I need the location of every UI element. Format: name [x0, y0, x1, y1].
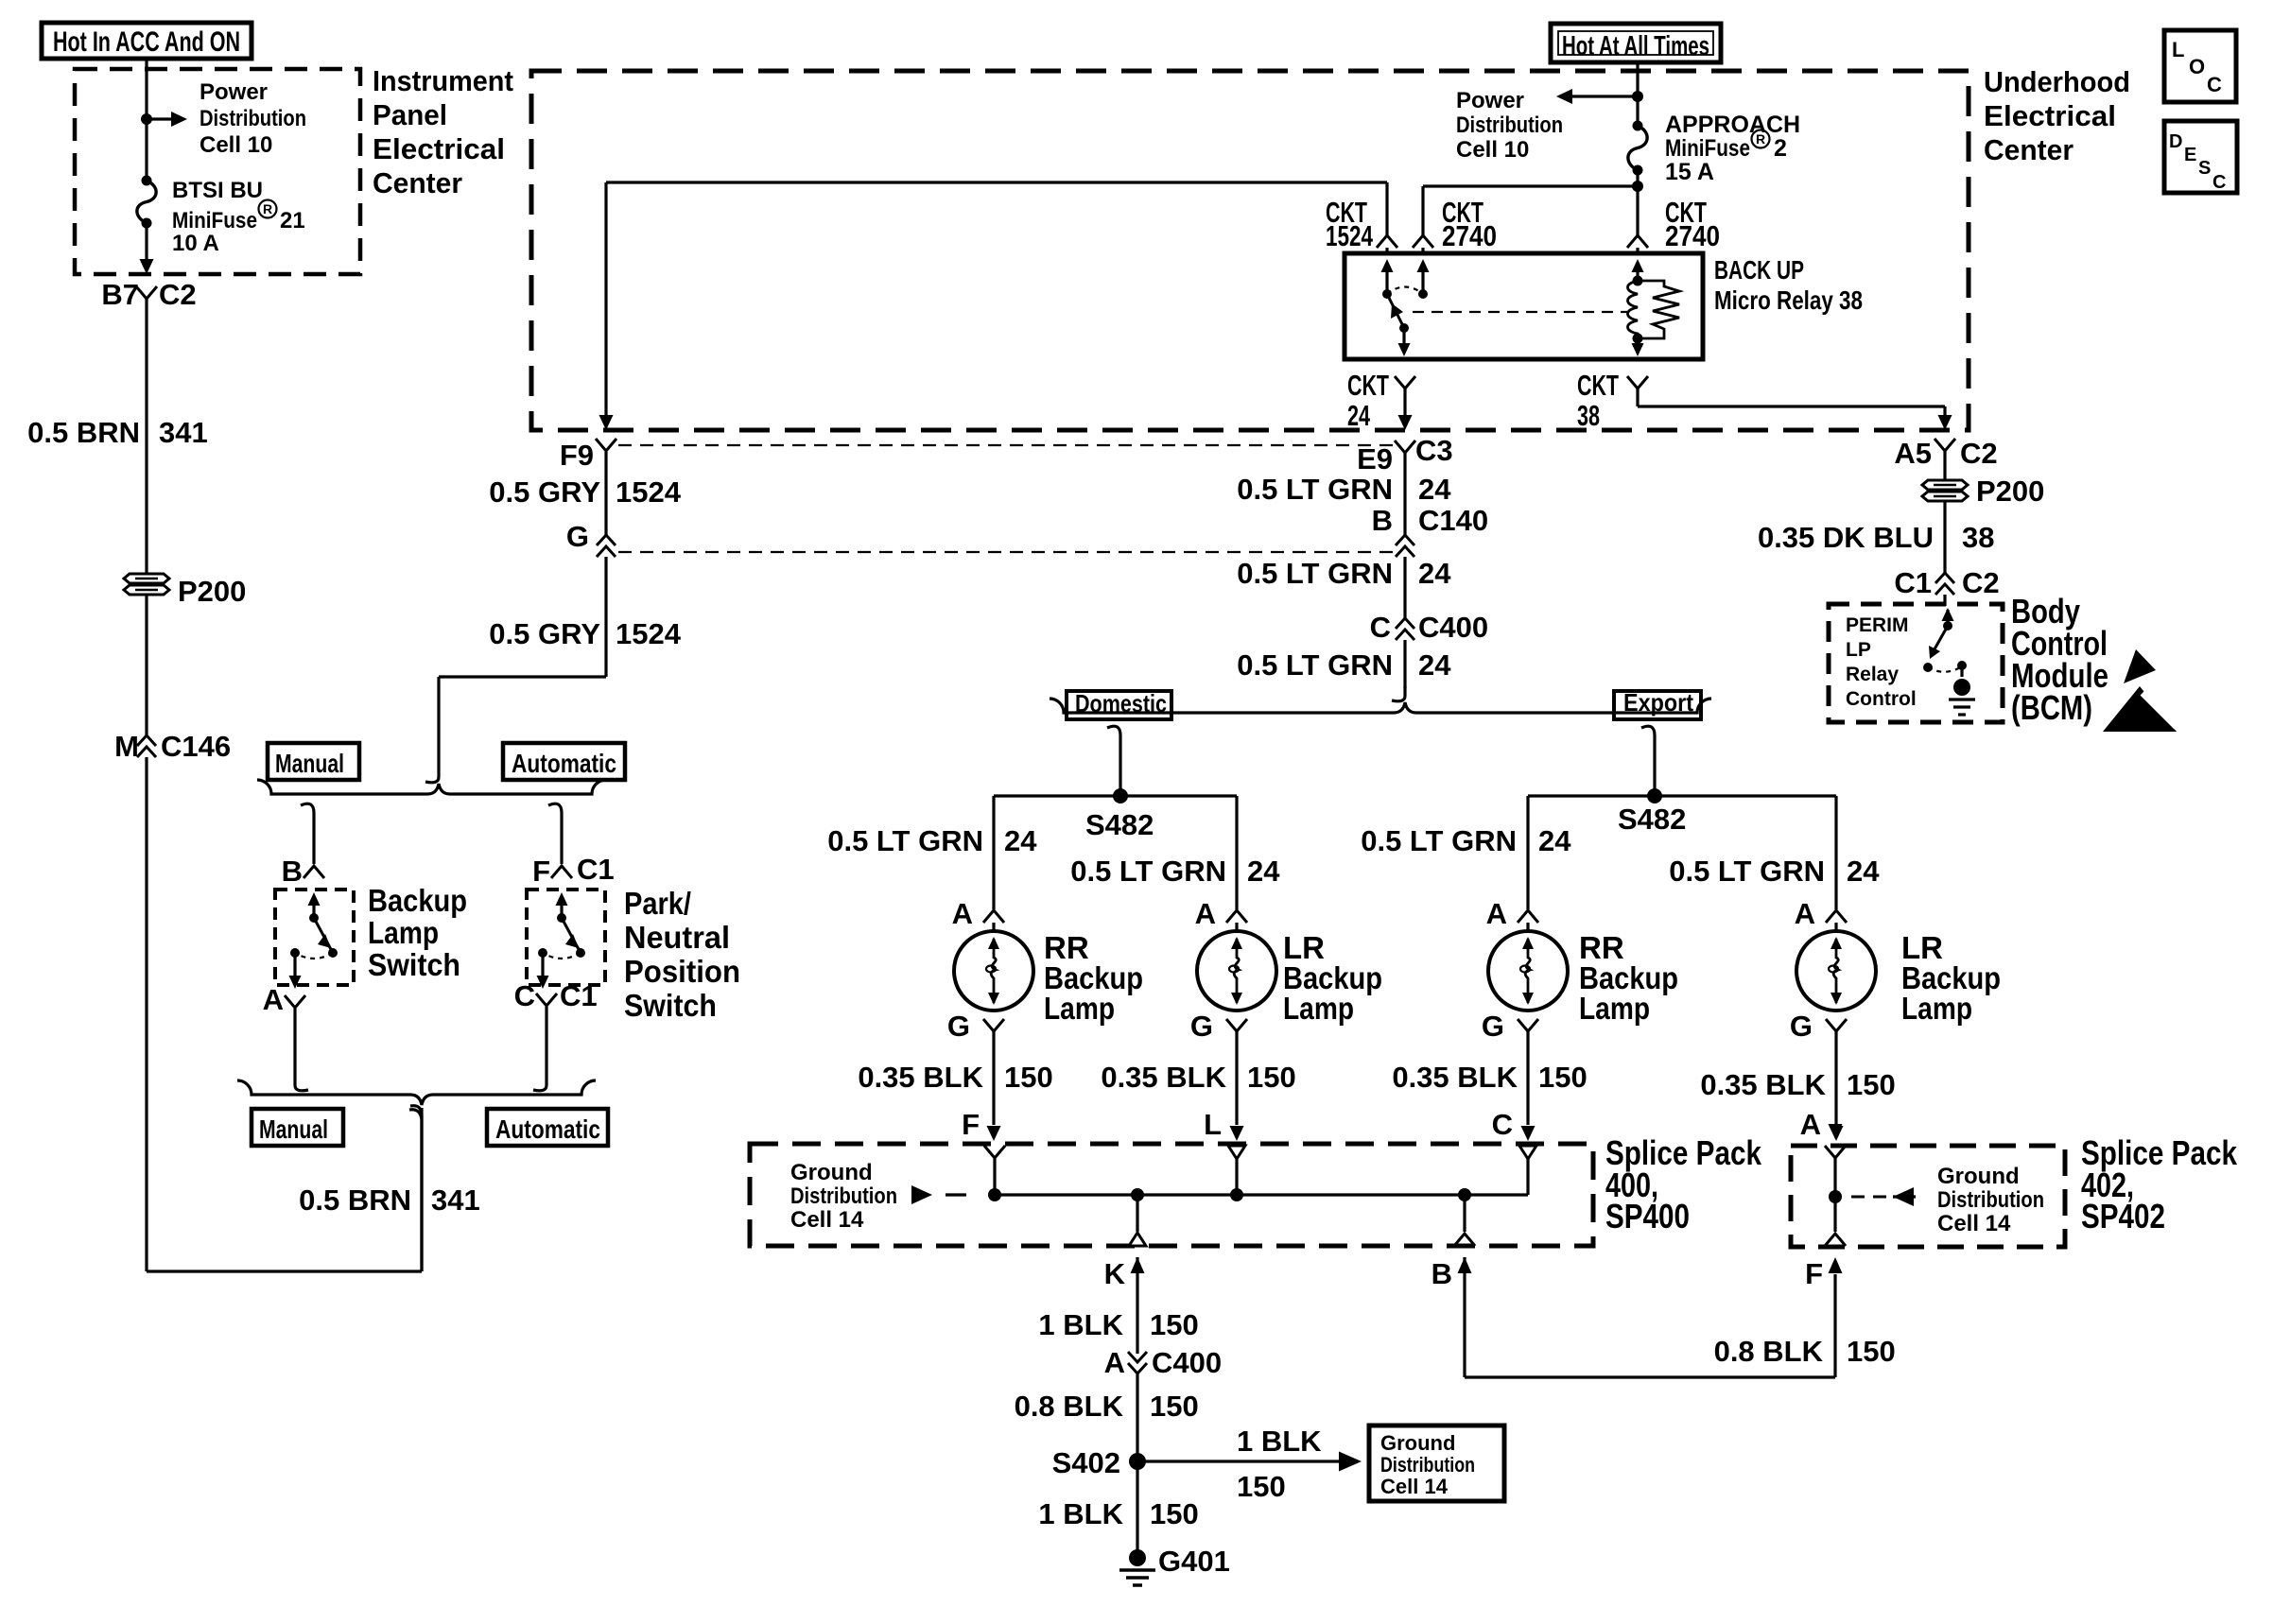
wire 0.5 BRN 341 (upper): [145, 299, 147, 574]
svg-text:0.5 GRY: 0.5 GRY: [489, 475, 600, 509]
wire: Export branch down: [1641, 726, 1655, 796]
svg-text:L: L: [2172, 38, 2184, 61]
power feed label box: Hot In ACC And ON: [42, 23, 252, 59]
svg-text:15 A: 15 A: [1665, 159, 1714, 185]
relay K1 box: BACK UP Micro Relay 38: [1345, 253, 1703, 359]
svg-text:0.5 LT GRN: 0.5 LT GRN: [827, 824, 983, 857]
svg-text:Cell 10: Cell 10: [200, 132, 272, 158]
svg-text:341: 341: [159, 416, 208, 449]
wire label 0.5 LT GRN 24 (LR dom): [1070, 855, 1280, 888]
thin dashed inline-connector line (C3 level): [618, 444, 1394, 446]
pin A LR backup lamp 2: [1195, 897, 1247, 930]
svg-text:0.35 DK BLU: 0.35 DK BLU: [1758, 521, 1934, 554]
svg-text:CKT: CKT: [1347, 369, 1389, 402]
svg-text:Cell 14: Cell 14: [1937, 1211, 2011, 1236]
svg-text:Center: Center: [373, 166, 462, 199]
wire 0.5 LT GRN 24 (C400 to split): [1392, 640, 1405, 701]
svg-text:E9: E9: [1357, 442, 1393, 475]
SP400 ground bus: [988, 1188, 1528, 1201]
svg-text:24: 24: [1538, 824, 1571, 857]
svg-text:C400: C400: [1152, 1346, 1222, 1379]
fuse F2 label: [1665, 112, 1800, 185]
svg-text:B7: B7: [101, 278, 139, 311]
connector pin B7 of C2: [101, 278, 196, 311]
wire label 0.5 LT GRN 24 (RR exp): [1361, 824, 1571, 857]
svg-text:P200: P200: [1976, 475, 2044, 508]
wire to RR lamp A (Domestic): [992, 796, 995, 909]
DESC reference box: [2164, 121, 2237, 193]
svg-text:2: 2: [1774, 135, 1787, 162]
arrow to Power Distribution Cell 10: [147, 112, 187, 127]
svg-text:150: 150: [1847, 1335, 1896, 1368]
svg-text:Electrical: Electrical: [1984, 99, 2116, 132]
wire: UHEC CKT1524 exit to F9: [599, 182, 614, 430]
svg-text:R: R: [263, 201, 272, 216]
pin L splice pack (lamp 2): [1204, 1108, 1222, 1141]
svg-text:0.5 LT GRN: 0.5 LT GRN: [1237, 473, 1393, 506]
svg-text:R: R: [1756, 131, 1765, 147]
relay K1 switch blade: [1387, 294, 1409, 333]
svg-text:24: 24: [1004, 824, 1037, 857]
pin A RR backup lamp 1: [952, 897, 1004, 930]
svg-text:150: 150: [1150, 1497, 1199, 1530]
relay K1 label: [1714, 255, 1863, 315]
svg-text:Neutral: Neutral: [624, 920, 730, 955]
relay K1 switch pin 2: [1417, 259, 1430, 299]
svg-text:MiniFuse: MiniFuse: [1665, 135, 1750, 162]
svg-text:A: A: [263, 983, 284, 1016]
svg-text:C140: C140: [1418, 504, 1488, 537]
svg-text:Domestic: Domestic: [1075, 689, 1167, 717]
LR Backup Lamp label 2: [1283, 930, 1382, 1026]
fuse F1: BTSI BU MiniFuse 21: [137, 176, 156, 229]
pin G LR backup lamp 4: [1790, 1010, 1847, 1043]
svg-text:Underhood: Underhood: [1984, 65, 2130, 98]
svg-text:Distribution: Distribution: [1937, 1187, 2044, 1213]
svg-text:Distribution: Distribution: [790, 1183, 897, 1209]
connector F into SP400: [984, 1146, 1005, 1195]
wire label 0.5 LT GRN 24 (LR exp): [1669, 855, 1880, 888]
wire 1 BLK 150 to Ground Distribution: [1137, 1452, 1362, 1472]
relay K1 control dashed link: [1413, 311, 1628, 313]
wire label 0.5 BRN 341 (lower): [299, 1183, 480, 1217]
svg-text:PERIM: PERIM: [1846, 614, 1909, 636]
wire: Domestic branch down: [1107, 726, 1120, 796]
connector pin A5 of C2: [1894, 437, 1997, 470]
svg-text:Ground: Ground: [1937, 1164, 2020, 1189]
svg-text:0.5 BRN: 0.5 BRN: [27, 416, 140, 449]
wire: relay switch out to E9: [1398, 389, 1413, 430]
svg-text:S: S: [2198, 158, 2211, 179]
svg-text:0.35 BLK: 0.35 BLK: [1392, 1061, 1518, 1094]
connector pin M of C146: [114, 730, 231, 763]
PERIM LP Relay Control label: [1846, 614, 1917, 710]
svg-text:G401: G401: [1158, 1545, 1230, 1578]
svg-text:G: G: [947, 1010, 970, 1043]
svg-text:BACK UP: BACK UP: [1714, 255, 1804, 285]
wire A5 to P200: [1943, 451, 1946, 480]
svg-text:Automatic: Automatic: [495, 1114, 600, 1144]
wire label 0.5 LT GRN 24 (3): [1237, 648, 1451, 682]
svg-text:0.8 BLK: 0.8 BLK: [1015, 1390, 1124, 1423]
svg-text:M: M: [114, 730, 139, 763]
svg-text:B: B: [282, 855, 303, 888]
BCM internal ground: [1949, 665, 1975, 715]
svg-text:E: E: [2184, 145, 2196, 165]
wire label 0.35 BLK 150 (2): [1101, 1061, 1295, 1094]
lamp E3: RR backup lamp: [1488, 923, 1568, 1011]
wire label 0.35 BLK 150 (3): [1392, 1061, 1587, 1094]
svg-text:F: F: [532, 855, 550, 888]
svg-text:Hot In ACC And ON: Hot In ACC And ON: [53, 26, 240, 58]
svg-text:2740: 2740: [1442, 219, 1497, 252]
svg-text:24: 24: [1418, 473, 1451, 506]
BCM driver switch: [1923, 608, 1954, 672]
option bracket (bottom): [237, 1080, 596, 1271]
CKT 2740 label (left): [1413, 196, 1497, 255]
relay K1 switch output: [1398, 328, 1411, 356]
svg-text:Ground: Ground: [1380, 1431, 1455, 1455]
wire label 0.35 DK BLU 38: [1758, 521, 1995, 554]
wire into BCM: [1943, 595, 1946, 606]
wire lamp4 into SP402: [1829, 1124, 1843, 1139]
wire label 0.35 BLK 150 (1): [858, 1061, 1052, 1094]
svg-text:Ground: Ground: [790, 1160, 873, 1185]
svg-text:Lamp: Lamp: [1901, 991, 1972, 1026]
connector pin C of C400: [1370, 611, 1489, 644]
wire: Automatic branch: [548, 803, 562, 864]
svg-text:1 BLK: 1 BLK: [1038, 1308, 1123, 1341]
svg-text:SP400: SP400: [1605, 1197, 1690, 1235]
svg-text:C2: C2: [1960, 437, 1998, 470]
svg-text:Lamp: Lamp: [1044, 991, 1115, 1026]
svg-text:S482: S482: [1085, 808, 1154, 841]
svg-text:Lamp: Lamp: [1283, 991, 1354, 1026]
fuse F1 label: [172, 178, 305, 256]
pin A LR backup lamp 4: [1795, 897, 1847, 930]
CKT 1524 label: [1326, 196, 1397, 255]
svg-text:0.5 LT GRN: 0.5 LT GRN: [1070, 855, 1226, 888]
svg-text:Distribution: Distribution: [1456, 112, 1563, 138]
svg-text:(BCM): (BCM): [2011, 688, 2092, 727]
wire label 0.5 LT GRN 24 (1): [1237, 473, 1451, 506]
connector pin G pass-through: [566, 520, 616, 557]
LR Backup Lamp label 4: [1901, 930, 2001, 1026]
svg-text:150: 150: [1247, 1061, 1296, 1094]
pin F label (SP402): [1805, 1234, 1846, 1290]
connector pin E9 of C3: [1357, 434, 1453, 475]
Domestic tag: [1067, 689, 1171, 719]
svg-text:1 BLK: 1 BLK: [1237, 1425, 1322, 1458]
Splice Pack 400 dashed box: [750, 1144, 1593, 1246]
svg-text:C: C: [1492, 1108, 1513, 1141]
wire: Hot In ACC feed down into IP fuse block: [145, 59, 147, 181]
svg-text:Export: Export: [1623, 688, 1693, 717]
SP402 splice node: [1829, 1190, 1842, 1232]
svg-text:Backup: Backup: [368, 883, 467, 918]
svg-text:LP: LP: [1846, 639, 1871, 661]
svg-text:Lamp: Lamp: [1579, 991, 1650, 1026]
power feed label box: Hot At All Times: [1551, 24, 1721, 62]
wire: relay coil out CKT 38 to A5: [1638, 389, 1952, 430]
fuse F2: APPROACH MiniFuse 2: [1628, 121, 1647, 176]
svg-text:C3: C3: [1415, 434, 1453, 467]
relay K1 coil: [1628, 259, 1644, 344]
svg-text:A: A: [1800, 1108, 1821, 1141]
svg-text:G: G: [1482, 1010, 1504, 1043]
pin F splice pack (lamp 1): [962, 1108, 980, 1141]
svg-text:A: A: [1104, 1346, 1125, 1379]
svg-text:C1: C1: [577, 853, 615, 886]
svg-text:Control: Control: [1846, 688, 1917, 710]
pin K label: [1104, 1257, 1145, 1354]
svg-text:0.8 BLK: 0.8 BLK: [1714, 1335, 1824, 1368]
Ground Distribution Cell 14 label (SP402): [1937, 1164, 2044, 1236]
svg-text:C1: C1: [1894, 566, 1932, 599]
svg-text:10 A: 10 A: [172, 231, 219, 256]
wire label 0.5 LT GRN 24 (RR dom): [827, 824, 1037, 857]
Manual tag (top): [268, 743, 359, 780]
svg-text:0.5 LT GRN: 0.5 LT GRN: [1237, 557, 1393, 590]
CKT 24 label: [1347, 369, 1415, 432]
svg-text:1524: 1524: [1326, 219, 1374, 252]
svg-text:C: C: [2207, 73, 2222, 96]
svg-text:C400: C400: [1418, 611, 1488, 644]
wire 0.35 BLK 150 lamp 1 ground: [987, 1031, 1001, 1141]
svg-text:0.5 LT GRN: 0.5 LT GRN: [1361, 824, 1517, 857]
pin G LR backup lamp 2: [1190, 1010, 1247, 1043]
svg-text:24: 24: [1418, 557, 1451, 590]
svg-text:21: 21: [280, 208, 305, 233]
inline connector P200 (right): [1922, 475, 2044, 508]
wire 0.5 LT GRN 24 (C140 to C400): [1403, 557, 1406, 618]
wire label 0.8 BLK 150: [1015, 1390, 1199, 1423]
svg-text:0.5 LT GRN: 0.5 LT GRN: [1237, 648, 1393, 682]
backup lamp switch S1 contacts: [289, 892, 338, 989]
svg-text:150: 150: [1237, 1470, 1286, 1503]
Instrument Panel Electrical Center dashed box: [75, 69, 360, 274]
Body Control Module dashed box: [1829, 604, 2003, 722]
wire: fuse output to IP box edge: [140, 223, 154, 274]
wire: switch A down to bottom bracket: [295, 1009, 308, 1091]
node: power distribution tap: [141, 113, 152, 125]
svg-text:C146: C146: [161, 730, 231, 763]
inline connector P200 (left): [124, 574, 246, 608]
RR Backup Lamp label 3: [1579, 930, 1678, 1026]
svg-text:Panel: Panel: [373, 98, 447, 131]
svg-text:MiniFuse: MiniFuse: [172, 208, 257, 233]
svg-text:1 BLK: 1 BLK: [1038, 1497, 1123, 1530]
svg-text:C1: C1: [560, 979, 598, 1012]
relay K1 movable contact arc: [1387, 287, 1423, 295]
svg-text:F9: F9: [560, 439, 594, 472]
svg-text:F: F: [962, 1108, 980, 1141]
svg-text:Micro Relay 38: Micro Relay 38: [1714, 285, 1863, 315]
Underhood Electrical Center label: [1984, 65, 2130, 166]
wire below P200: [145, 595, 147, 736]
wire label 1 BLK 150 (G401): [1038, 1497, 1198, 1530]
svg-text:1524: 1524: [616, 617, 682, 650]
connector pin A of C400 (ground): [1104, 1346, 1223, 1379]
wire label 0.5 GRY 1524 (upper): [489, 475, 681, 509]
svg-text:C2: C2: [159, 278, 197, 311]
svg-text:Cell 14: Cell 14: [790, 1207, 864, 1233]
svg-text:Distribution: Distribution: [200, 106, 306, 131]
wire label 0.5 LT GRN 24 (2): [1237, 557, 1451, 590]
relay K1 switch pin 1: [1381, 259, 1394, 299]
svg-text:0.5 BRN: 0.5 BRN: [299, 1183, 411, 1217]
option bracket (top, Manual/Automatic): [257, 780, 606, 794]
splice S402: [1052, 1446, 1146, 1479]
CKT 2740 label (right): [1627, 196, 1720, 255]
svg-text:24: 24: [1847, 855, 1880, 888]
svg-text:Manual: Manual: [259, 1114, 328, 1144]
option bracket Domestic/Export: [1050, 699, 1711, 713]
svg-text:Relay: Relay: [1846, 664, 1899, 685]
svg-text:24: 24: [1247, 855, 1280, 888]
svg-text:Position: Position: [624, 954, 740, 989]
pin A RR backup lamp 3: [1486, 897, 1538, 930]
Splice Pack 402, SP402 label: [2081, 1133, 2238, 1235]
svg-text:Electrical: Electrical: [373, 132, 505, 165]
lamp E2: LR backup lamp: [1197, 923, 1276, 1011]
svg-text:Lamp: Lamp: [368, 915, 439, 950]
svg-text:D: D: [2169, 131, 2182, 152]
wire: switch C down to bottom bracket: [533, 1007, 547, 1091]
Park/Neutral Position Switch label: [624, 886, 740, 1023]
svg-text:24: 24: [1347, 399, 1371, 432]
pin F of C1 PNP switch: [532, 853, 615, 888]
wire: M C146 down, across, up to option bracket: [147, 757, 422, 1271]
connector pin F9 of C3: [560, 439, 616, 472]
svg-text:G: G: [566, 520, 589, 553]
svg-text:B: B: [1372, 504, 1393, 537]
ESD sensitivity symbol: [2103, 649, 2177, 732]
svg-text:0.35 BLK: 0.35 BLK: [858, 1061, 983, 1094]
wire 0.35 BLK 150 lamp 3 ground: [1521, 1031, 1536, 1141]
wire to LR lamp A (Export): [1834, 796, 1837, 909]
svg-text:150: 150: [1004, 1061, 1053, 1094]
wire to RR lamp A (Export): [1526, 796, 1529, 909]
svg-text:Cell 10: Cell 10: [1456, 137, 1529, 163]
relay K1 coil output: [1632, 338, 1644, 356]
wire CKT 1524 long feed to relay pin 1: [606, 182, 1387, 236]
wire 0.35 BLK 150 lamp 2 ground: [1230, 1031, 1244, 1141]
lamp E1: RR backup lamp: [954, 923, 1033, 1011]
Export tag: [1614, 688, 1701, 719]
wire 0.35 BLK 150 lamp 4 ground: [1830, 1031, 1844, 1141]
Splice Pack 400, SP400 label: [1605, 1133, 1762, 1235]
Underhood Electrical Center dashed box: [531, 71, 1969, 430]
Ground Distribution Cell 14 box (bottom): [1369, 1425, 1504, 1501]
svg-text:A: A: [1195, 897, 1216, 930]
wire label 0.35 BLK 150 (4): [1700, 1068, 1895, 1101]
Automatic tag (top): [503, 743, 625, 780]
Manual tag (bottom): [252, 1109, 343, 1146]
svg-text:150: 150: [1150, 1308, 1199, 1341]
pin G RR backup lamp 1: [947, 1010, 1004, 1043]
connector C into SP400: [1519, 1146, 1536, 1195]
svg-text:2740: 2740: [1665, 219, 1720, 252]
arrow to Power Distribution Cell 10 (UHEC): [1556, 89, 1638, 104]
svg-text:C2: C2: [1962, 566, 2000, 599]
Splice Pack 402 dashed box: [1791, 1146, 2065, 1247]
svg-text:38: 38: [1577, 399, 1600, 432]
LOC reference box: [2164, 30, 2236, 102]
relay K1 coil parallel resistor: [1638, 281, 1679, 338]
svg-text:G: G: [1790, 1010, 1813, 1043]
connector L into SP400: [1228, 1146, 1245, 1195]
svg-text:P200: P200: [178, 575, 246, 608]
svg-text:F: F: [1805, 1257, 1823, 1290]
wire: battery feed down: [1636, 62, 1639, 126]
svg-text:CKT: CKT: [1577, 369, 1619, 402]
svg-text:B: B: [1431, 1257, 1452, 1290]
wire label 0.5 GRY 1524 (lower): [489, 617, 681, 650]
wire label 1 BLK 150 (K): [1038, 1308, 1198, 1341]
Ground Distribution Cell 14 label (SP400): [790, 1160, 897, 1233]
svg-text:Switch: Switch: [624, 988, 717, 1023]
svg-text:150: 150: [1150, 1390, 1199, 1423]
svg-text:C: C: [514, 979, 535, 1012]
splice S482 (Domestic): [994, 788, 1237, 841]
svg-text:Distribution: Distribution: [1380, 1453, 1475, 1477]
splice S482 (Export): [1528, 788, 1836, 836]
svg-text:APPROACH: APPROACH: [1665, 112, 1800, 138]
svg-text:S402: S402: [1052, 1446, 1120, 1479]
svg-text:38: 38: [1962, 521, 1994, 554]
svg-text:SP402: SP402: [2081, 1197, 2165, 1235]
ground G401: [1119, 1545, 1230, 1585]
RR Backup Lamp label 1: [1044, 930, 1143, 1026]
svg-text:G: G: [1190, 1010, 1213, 1043]
ground distribution arrow (SP400): [911, 1185, 966, 1204]
svg-text:0.5 LT GRN: 0.5 LT GRN: [1669, 855, 1825, 888]
svg-text:Automatic: Automatic: [512, 749, 616, 778]
svg-text:150: 150: [1847, 1068, 1896, 1101]
wire CKT 2740 branch to relay pin 2: [1423, 186, 1638, 236]
svg-text:O: O: [2189, 55, 2205, 78]
wire 0.35 DK BLU 38: [1943, 501, 1946, 573]
svg-text:Switch: Switch: [368, 947, 460, 982]
lamp E4: LR backup lamp: [1796, 923, 1876, 1011]
thin dashed inline-connector line (C140 level): [618, 551, 1394, 553]
CKT 38 label: [1577, 369, 1648, 432]
wire: Manual branch: [301, 803, 314, 864]
node: power distribution tap (UHEC): [1632, 91, 1643, 102]
node under fuse F2: [1632, 170, 1643, 236]
BCM switch dashed arc: [1928, 661, 1967, 672]
connector A into SP402: [1825, 1146, 1846, 1197]
svg-text:L: L: [1204, 1108, 1222, 1141]
Body Control Module (BCM) label: [2011, 592, 2108, 727]
Power Distribution Cell 10 label (UHEC): [1456, 88, 1563, 163]
svg-text:BTSI BU: BTSI BU: [172, 178, 263, 203]
svg-text:C: C: [2212, 172, 2226, 193]
wire 0.8 BLK 150 to S402: [1136, 1373, 1138, 1461]
connector pin B of C140: [1372, 504, 1489, 557]
svg-text:S482: S482: [1618, 803, 1686, 836]
wire label 0.8 BLK 150 (SP402 F): [1714, 1335, 1896, 1368]
pin A backup lamp switch: [263, 983, 305, 1016]
pin G RR backup lamp 3: [1482, 1010, 1538, 1043]
svg-text:0.5 GRY: 0.5 GRY: [489, 617, 600, 650]
svg-text:C: C: [1370, 611, 1391, 644]
SP402 ground distribution dashed arrow: [1851, 1187, 1916, 1206]
svg-text:K: K: [1104, 1257, 1126, 1290]
wire to LR lamp A (Domestic): [1235, 796, 1238, 909]
svg-text:Cell 14: Cell 14: [1380, 1475, 1449, 1498]
